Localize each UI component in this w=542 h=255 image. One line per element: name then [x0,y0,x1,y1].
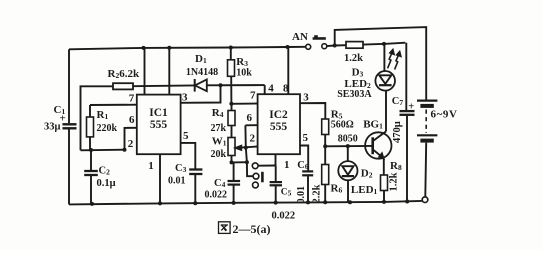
svg-text:AN: AN [292,31,308,43]
svg-text:8050: 8050 [338,133,358,144]
svg-text:5: 5 [183,130,189,142]
svg-text:C5: C5 [281,188,292,198]
svg-text:C3: C3 [175,163,187,174]
svg-text:6: 6 [129,114,135,126]
svg-text:C2: C2 [99,166,111,177]
svg-text:560Ω: 560Ω [331,119,354,130]
svg-text:C6: C6 [297,160,309,171]
svg-text:27k: 27k [211,123,227,134]
svg-text:0.01: 0.01 [296,186,307,204]
svg-text:C7: C7 [392,96,404,107]
svg-text:470μ: 470μ [392,121,403,143]
svg-text:6: 6 [246,112,252,124]
svg-text:3: 3 [303,92,309,104]
svg-text:1N4148: 1N4148 [186,67,218,78]
svg-text:8: 8 [283,83,289,95]
svg-text:555: 555 [150,119,168,131]
svg-text:2—5(a): 2—5(a) [233,222,271,236]
svg-text:1.2k: 1.2k [344,53,363,64]
svg-text:1: 1 [284,159,290,171]
svg-text:1: 1 [148,160,154,172]
svg-text:20k: 20k [211,149,227,160]
svg-text:IC2: IC2 [269,109,288,121]
svg-text:4: 4 [268,83,274,95]
svg-text:C4: C4 [214,178,226,189]
svg-text:+: + [408,102,414,113]
svg-text:7: 7 [250,90,256,102]
svg-text:2.2k: 2.2k [312,184,323,203]
svg-text:6~9V: 6~9V [431,109,458,121]
svg-text:0.01: 0.01 [168,176,186,187]
svg-text:3: 3 [182,91,188,103]
svg-text:R26.2k: R26.2k [108,68,140,80]
svg-text:SE303A: SE303A [337,89,372,100]
svg-text:0.022: 0.022 [272,211,296,222]
svg-text:1.2k: 1.2k [389,172,400,191]
svg-text:2: 2 [249,133,255,145]
svg-text:555: 555 [270,121,288,133]
svg-text:33μ: 33μ [44,122,61,133]
svg-text:220k: 220k [97,123,118,134]
svg-text:IC1: IC1 [149,107,168,119]
svg-text:2: 2 [128,138,134,150]
svg-text:7: 7 [129,93,135,105]
svg-text:5: 5 [302,132,308,144]
svg-text:10k: 10k [236,68,252,79]
svg-text:0.1μ: 0.1μ [97,178,116,189]
svg-text:0.022: 0.022 [205,190,228,201]
